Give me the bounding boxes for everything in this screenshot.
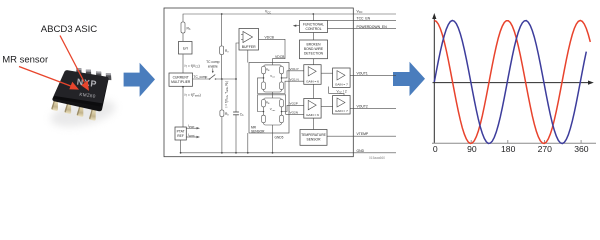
block PTAT REF xyxy=(175,127,186,140)
svg-text:VO2P: VO2P xyxy=(290,102,298,106)
block TEMPERATURE SENSOR xyxy=(300,130,327,146)
svg-text:TCC_EN: TCC_EN xyxy=(357,16,371,20)
svg-text:IPTAT: IPTAT xyxy=(188,124,195,129)
svg-text:VCC: VCC xyxy=(357,9,363,14)
svg-text:015aaa660: 015aaa660 xyxy=(369,156,385,160)
wire buffer ground xyxy=(247,50,249,63)
wire amp3 to temperature sensor xyxy=(312,118,314,129)
svg-text:SENSOR: SENSOR xyxy=(251,129,265,133)
svg-text:GND5: GND5 xyxy=(275,135,284,139)
svg-text:SENSOR: SENSOR xyxy=(307,138,322,142)
block FUNCTIONAL CONTROL xyxy=(300,21,328,33)
svg-text:Rb: Rb xyxy=(187,27,191,32)
svg-text:VOUT1: VOUT1 xyxy=(357,71,368,75)
pin labels right edge xyxy=(265,9,387,152)
chip front pins xyxy=(51,97,97,121)
svg-text:Rv: Rv xyxy=(225,49,229,54)
op-amp GAIN = 7 (2) xyxy=(333,96,351,115)
label VCC/2 xyxy=(337,90,347,95)
junction dots xyxy=(180,13,314,154)
svg-text:VDCB: VDCB xyxy=(275,55,285,59)
svg-text:RB: RB xyxy=(266,101,270,106)
label ABCD3 ASIC xyxy=(41,24,98,35)
wire functional control to broken bond-wire xyxy=(312,33,314,41)
pin wire VOUT2 xyxy=(350,108,396,110)
svg-text:MULTIPLIER: MULTIPLIER xyxy=(171,80,191,84)
wire buffer output VDCB xyxy=(259,39,286,65)
svg-text:TEMPERATURE: TEMPERATURE xyxy=(301,133,326,137)
x axis xyxy=(433,81,594,85)
svg-text:180: 180 xyxy=(501,144,516,154)
outer frame xyxy=(164,8,353,157)
svg-text:RB: RB xyxy=(266,68,270,73)
wire bridge1 to bridge2 xyxy=(272,92,274,98)
svg-text:MR sensor: MR sensor xyxy=(2,55,48,66)
svg-text:360: 360 xyxy=(574,144,589,154)
wire sensor GND5 xyxy=(272,125,274,153)
svg-text:BOND-WIRE: BOND-WIRE xyxy=(304,47,324,51)
svg-text:Cb: Cb xyxy=(240,112,244,117)
wire broken bond-wire to amp1 xyxy=(312,59,314,65)
svg-text:VCC / 2: VCC / 2 xyxy=(337,90,347,95)
chip back pins xyxy=(76,68,111,80)
block BROKEN BOND-WIRE DETECTION xyxy=(300,40,328,59)
svg-text:VO1 P: VO1 P xyxy=(290,67,299,71)
op-amp GAIN = 6 (2) xyxy=(304,99,321,119)
arrow Iconst xyxy=(186,133,200,138)
big blue arrow 2 xyxy=(393,62,425,96)
svg-text:CURRENT: CURRENT xyxy=(173,76,189,80)
capacitor Cb xyxy=(233,112,244,117)
chip body xyxy=(52,70,108,111)
label VDCB (bridge node) xyxy=(275,55,285,59)
wire bridge2 output N xyxy=(258,95,304,115)
op-amp GAIN = 6 (1) xyxy=(304,65,321,85)
block CURRENT MULTIPLIER xyxy=(169,73,193,86)
bridge 1 (sine) xyxy=(262,65,284,92)
label VDCB (buffer out) xyxy=(265,35,275,39)
svg-text:0: 0 xyxy=(433,144,438,154)
svg-text:FUNCTIONAL: FUNCTIONAL xyxy=(303,23,324,27)
wire amp1 to amp3 xyxy=(312,84,314,98)
svg-text:VOUT2: VOUT2 xyxy=(357,105,368,109)
wire bridge1 output N xyxy=(258,78,304,94)
resistor Rv (mid) xyxy=(220,46,230,55)
wire capacitor branch xyxy=(235,79,237,112)
svg-text:90: 90 xyxy=(467,144,477,154)
wire buffer input xyxy=(236,43,239,79)
svg-text:VO1 N: VO1 N xyxy=(290,78,299,82)
svg-text:DETECTION: DETECTION xyxy=(304,52,324,56)
svg-text:IT = f(Tamb): IT = f(Tamb) xyxy=(185,93,201,98)
svg-text:GAIN = 6: GAIN = 6 xyxy=(306,79,319,83)
big blue arrow 1 xyxy=(124,63,155,97)
labels bridge outputs xyxy=(290,67,299,115)
resistor Rb (top left) xyxy=(181,22,191,33)
svg-text:I = f(VCC, Tamb, Rb): I = f(VCC, Tamb, Rb) xyxy=(224,81,229,107)
label IT = f(Tamb) xyxy=(185,93,201,98)
wire GND bus xyxy=(181,140,396,153)
svg-text:GND: GND xyxy=(357,149,365,153)
chip marking KMZ60 xyxy=(79,92,96,99)
tick marks xyxy=(471,140,581,143)
op-amp GAIN = 7 (1) xyxy=(333,68,351,87)
curve cos (red) xyxy=(434,21,590,144)
y axis xyxy=(432,13,436,143)
svg-text:REF: REF xyxy=(177,134,184,138)
svg-text:VDCB: VDCB xyxy=(265,35,275,39)
svg-text:BUFFER: BUFFER xyxy=(242,45,256,49)
label IT = f(VCC) xyxy=(185,64,200,69)
svg-text:TC_comp: TC_comp xyxy=(194,75,208,79)
arrow IPTAT xyxy=(186,124,200,129)
baseline xyxy=(432,142,596,144)
svg-text:POWERDOWN_EN: POWERDOWN_EN xyxy=(357,25,388,29)
svg-text:Rb: Rb xyxy=(225,112,229,117)
svg-text:CONTROL: CONTROL xyxy=(305,27,321,31)
wire bridge2 output P xyxy=(282,105,304,111)
svg-text:enable: enable xyxy=(208,64,218,68)
wire bias line down xyxy=(221,14,223,46)
wire TC comp path xyxy=(193,78,210,80)
bridge 2 (cosine) xyxy=(262,98,284,125)
block MR SENSOR box xyxy=(249,63,289,140)
svg-text:U/I: U/I xyxy=(183,47,188,51)
wire VCC/2 bias xyxy=(329,87,344,96)
pin wire VTEMP xyxy=(327,135,396,137)
NXP logo on chip xyxy=(76,77,97,89)
arrow functional control output xyxy=(293,25,300,27)
svg-text:IT = f(VCC): IT = f(VCC) xyxy=(185,64,200,69)
op-amp BUFFER xyxy=(239,29,259,51)
curve sin (blue) xyxy=(434,21,586,144)
wire bridge1 output P xyxy=(282,71,304,78)
resistor Rb (bottom mid) xyxy=(220,110,229,117)
figure id 015aaa660 xyxy=(369,156,385,160)
label TC_comp xyxy=(194,75,208,79)
arrow from MR sensor label xyxy=(19,67,79,90)
switch TC comp enable xyxy=(206,60,220,80)
wire VCC rail xyxy=(183,14,396,22)
pin wire TCC_EN xyxy=(328,19,397,21)
svg-text:ABCD3 ASIC: ABCD3 ASIC xyxy=(41,24,98,35)
svg-text:BROKEN: BROKEN xyxy=(307,43,322,47)
wire amp1 to amp2 xyxy=(321,72,333,74)
svg-text:PTAT: PTAT xyxy=(177,130,185,134)
block U/I converter xyxy=(179,42,193,55)
svg-text:GAIN = 7: GAIN = 7 xyxy=(335,109,348,113)
wire left column xyxy=(182,33,184,41)
svg-text:Iconst: Iconst xyxy=(188,133,195,138)
svg-text:GAIN = 7: GAIN = 7 xyxy=(335,82,348,86)
wire amp3 to amp4 xyxy=(321,106,333,108)
svg-text:270: 270 xyxy=(538,144,553,154)
svg-text:VO2N: VO2N xyxy=(290,111,298,115)
arrow from ABCD3 ASIC label xyxy=(60,36,89,91)
axis tick labels xyxy=(433,144,589,154)
svg-text:VCC: VCC xyxy=(265,10,271,15)
label MR sensor xyxy=(2,55,48,66)
wire functional control top xyxy=(312,14,314,21)
label I = f(VCC, Tamb, Rb) rotated xyxy=(224,81,229,107)
chip shadow xyxy=(48,94,118,131)
svg-text:VTEMP: VTEMP xyxy=(357,132,369,136)
svg-text:Vcos: Vcos xyxy=(270,107,276,112)
svg-text:GAIN = 6: GAIN = 6 xyxy=(306,113,319,117)
pin wire POWERDOWN_EN xyxy=(328,28,397,30)
svg-text:Vsin: Vsin xyxy=(270,74,276,79)
pin wire VOUT1 xyxy=(350,74,396,76)
